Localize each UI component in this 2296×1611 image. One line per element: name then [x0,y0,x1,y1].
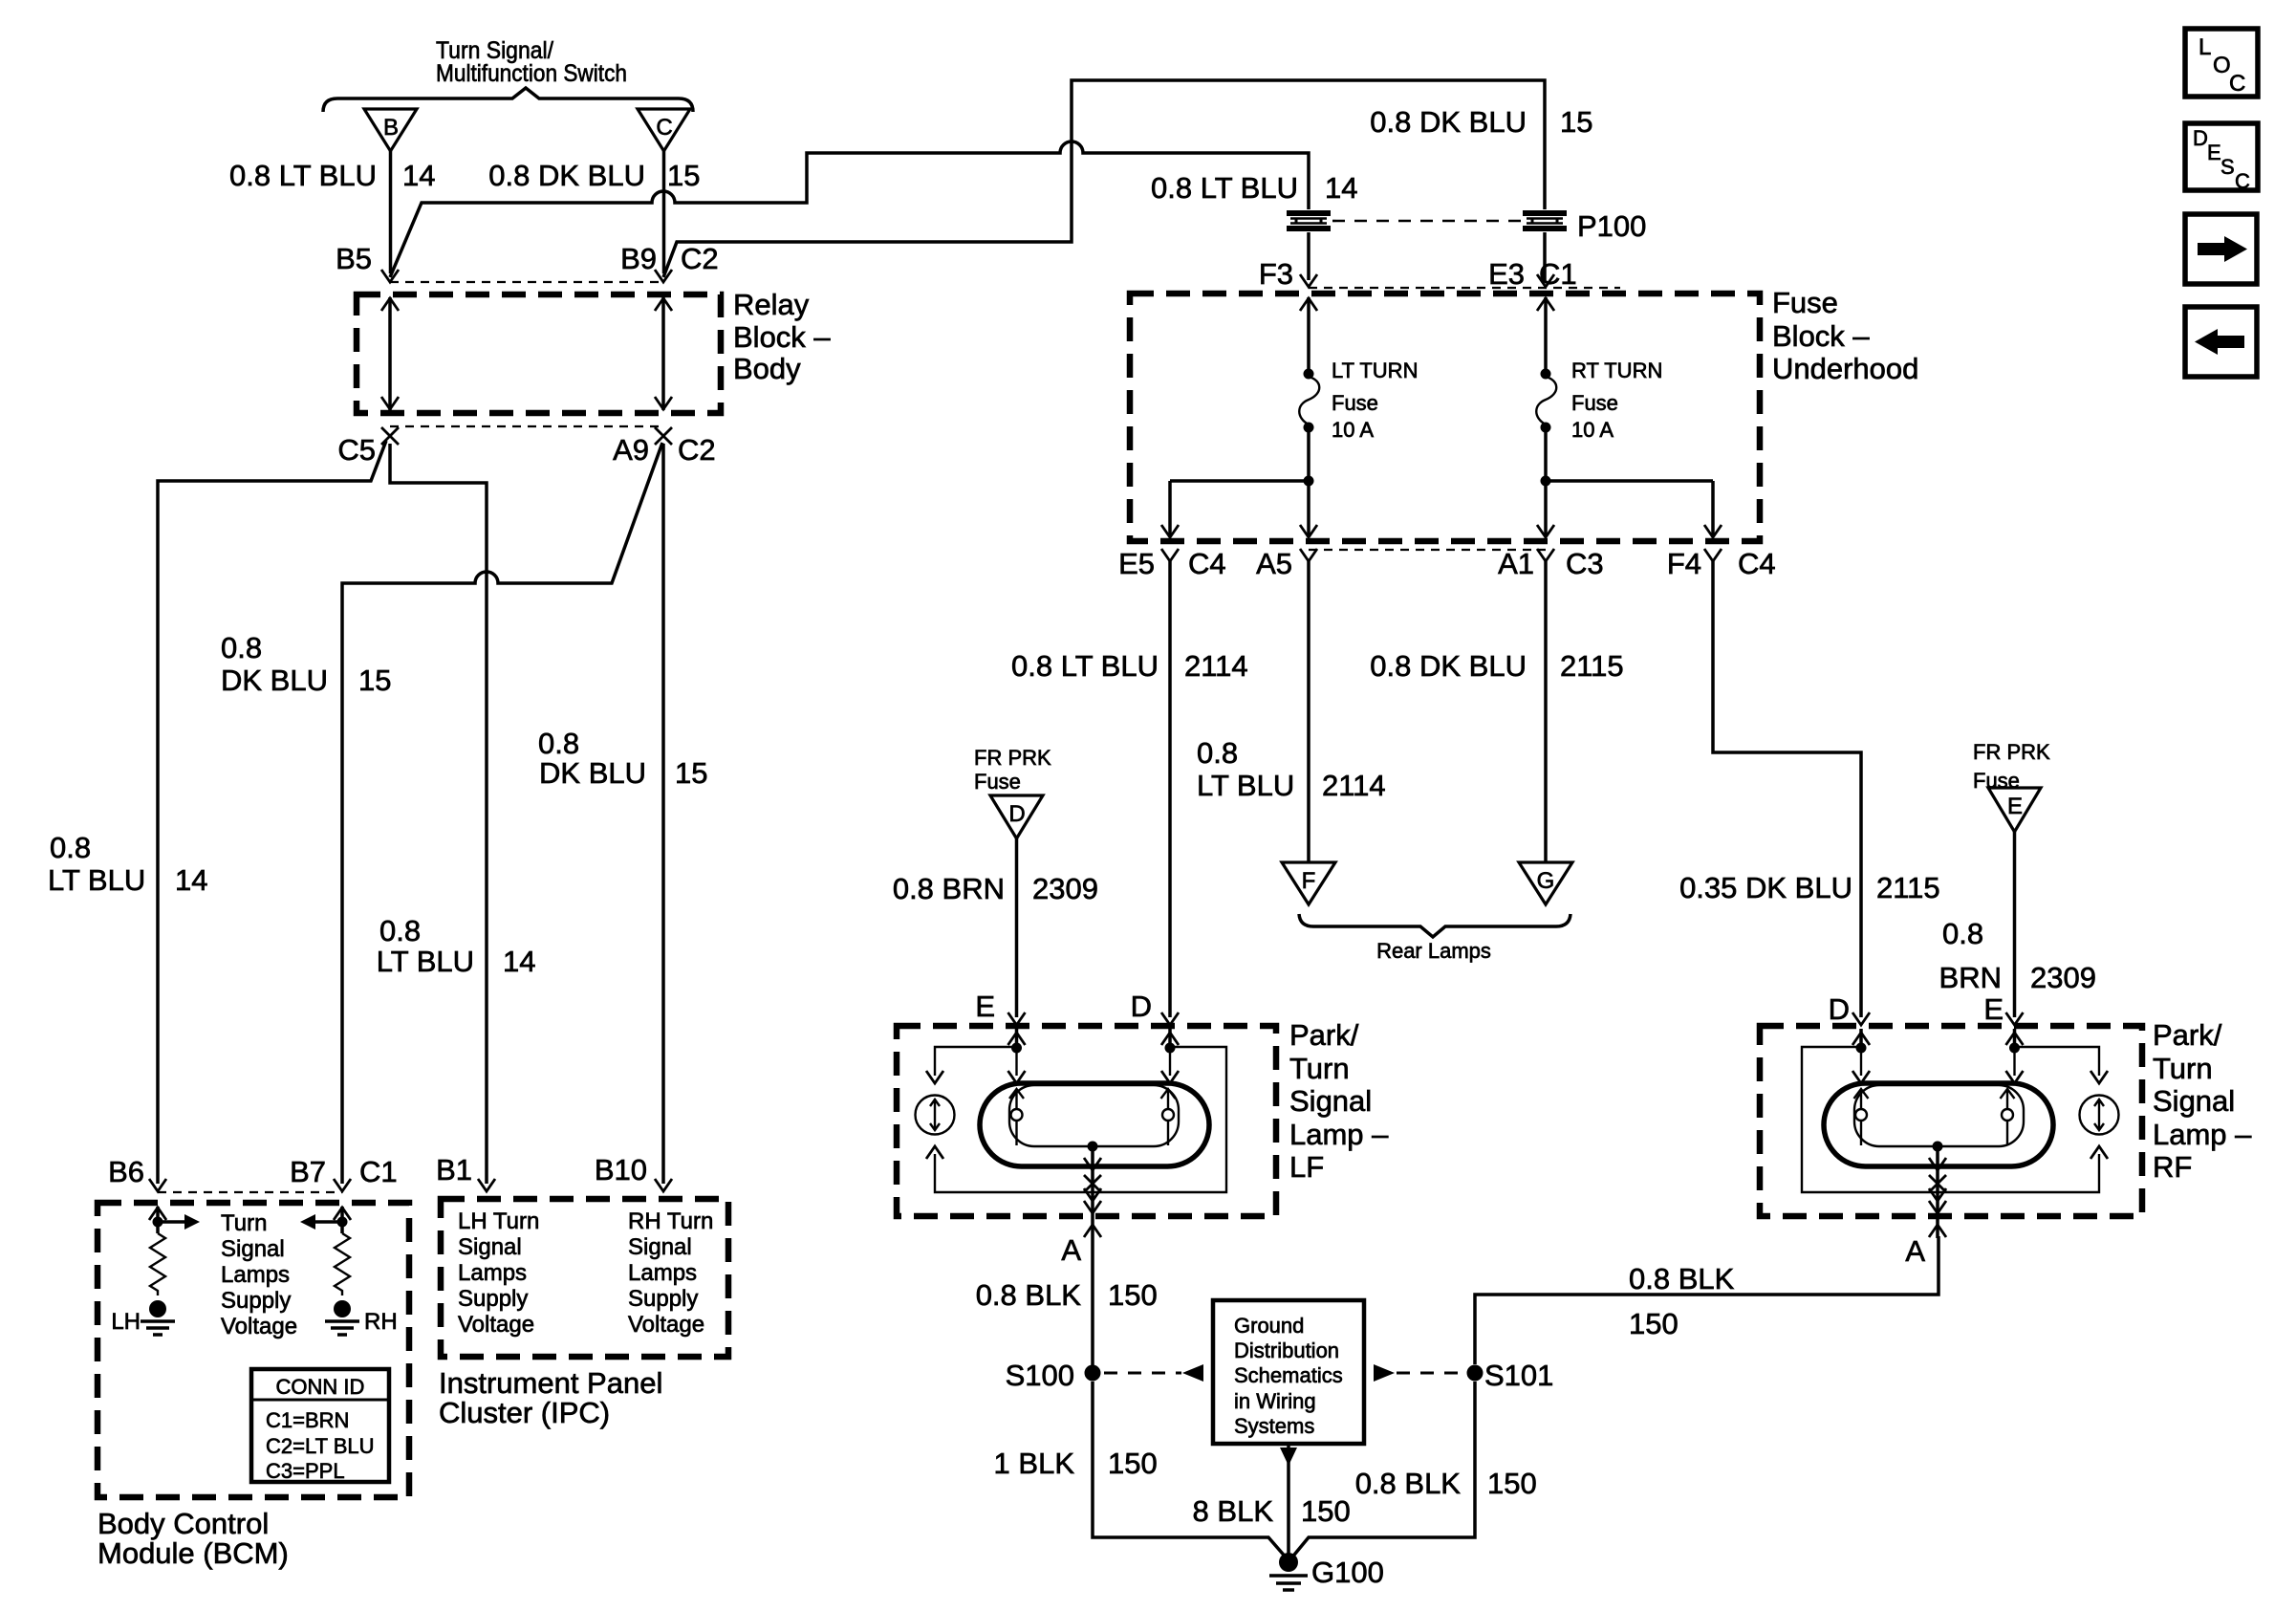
svg-text:C3=PPL: C3=PPL [266,1459,345,1483]
svg-text:Supply: Supply [221,1288,291,1314]
svg-text:C: C [656,115,672,141]
svg-text:Lamps: Lamps [628,1260,697,1286]
svg-text:Body Control: Body Control [97,1507,269,1540]
svg-text:14: 14 [503,945,535,978]
svg-text:FR PRK: FR PRK [1973,740,2050,764]
svg-text:0.8 LT BLU: 0.8 LT BLU [1151,171,1298,205]
svg-text:D: D [2193,126,2208,150]
svg-text:Supply: Supply [458,1286,528,1312]
svg-text:E: E [1983,992,2004,1026]
svg-text:D: D [1131,990,1152,1023]
svg-text:F4: F4 [1667,547,1701,580]
svg-text:C3: C3 [1566,547,1604,580]
svg-text:Signal: Signal [628,1234,692,1260]
svg-text:FR PRK: FR PRK [974,746,1051,770]
svg-text:Signal: Signal [458,1234,522,1260]
svg-text:0.8 DK BLU: 0.8 DK BLU [1370,105,1527,139]
svg-text:0.8 BLK: 0.8 BLK [1629,1262,1735,1295]
svg-text:LT BLU: LT BLU [377,945,474,978]
svg-text:B9: B9 [620,242,657,275]
svg-text:LT BLU: LT BLU [1197,769,1294,802]
svg-text:0.8 DK BLU: 0.8 DK BLU [1370,649,1527,683]
svg-text:A: A [1905,1234,1925,1268]
svg-text:0.8 BRN: 0.8 BRN [893,872,1005,905]
svg-text:Fuse: Fuse [1772,286,1838,319]
svg-text:Underhood: Underhood [1772,352,1918,385]
svg-text:Cluster (IPC): Cluster (IPC) [439,1396,610,1429]
svg-text:2309: 2309 [1032,872,1098,905]
svg-text:Relay: Relay [733,288,810,321]
svg-text:0.8 DK BLU: 0.8 DK BLU [488,159,645,192]
svg-text:C1: C1 [359,1155,398,1188]
svg-text:D: D [1829,992,1850,1026]
svg-text:150: 150 [1301,1494,1351,1528]
svg-text:Signal: Signal [221,1236,285,1262]
svg-text:0.8: 0.8 [50,831,91,864]
svg-text:D: D [1008,801,1025,827]
svg-text:Module (BCM): Module (BCM) [97,1536,289,1570]
svg-text:C4: C4 [1738,547,1776,580]
svg-text:Signal: Signal [1289,1084,1372,1118]
svg-text:Lamps: Lamps [221,1262,290,1288]
svg-text:C2: C2 [681,242,719,275]
svg-text:150: 150 [1108,1278,1158,1312]
svg-text:C5: C5 [337,433,376,467]
svg-text:B1: B1 [436,1153,472,1186]
svg-text:Voltage: Voltage [628,1312,704,1338]
svg-text:Instrument Panel: Instrument Panel [439,1366,662,1400]
svg-text:C2: C2 [678,433,716,467]
svg-text:A1: A1 [1498,547,1534,580]
svg-text:in Wiring: in Wiring [1234,1389,1316,1413]
svg-text:0.8: 0.8 [1197,736,1238,770]
svg-text:A5: A5 [1256,547,1292,580]
svg-text:Voltage: Voltage [458,1312,534,1338]
svg-text:RT TURN: RT TURN [1571,359,1662,382]
svg-text:0.8 BLK: 0.8 BLK [976,1278,1082,1312]
svg-text:S100: S100 [1006,1359,1074,1392]
svg-text:Schematics: Schematics [1234,1363,1343,1387]
svg-text:15: 15 [1560,105,1592,139]
svg-text:F3: F3 [1259,257,1293,291]
svg-text:Distribution: Distribution [1234,1339,1339,1362]
svg-text:Signal: Signal [2153,1084,2235,1118]
svg-text:15: 15 [675,756,707,790]
svg-text:Rear Lamps: Rear Lamps [1376,939,1491,963]
svg-text:C1: C1 [1539,257,1577,291]
svg-text:B: B [383,115,399,141]
svg-text:S101: S101 [1484,1359,1553,1392]
svg-text:Fuse: Fuse [1571,391,1618,415]
svg-text:LT BLU: LT BLU [48,863,145,897]
svg-text:LT TURN: LT TURN [1332,359,1418,382]
svg-text:DK BLU: DK BLU [221,664,328,697]
svg-text:L: L [2199,34,2211,60]
svg-text:C: C [2229,71,2245,97]
svg-text:0.35 DK BLU: 0.35 DK BLU [1679,871,1852,904]
svg-text:Fuse: Fuse [974,770,1021,794]
svg-text:F: F [1302,868,1316,894]
svg-text:0.8: 0.8 [379,914,421,947]
svg-text:Voltage: Voltage [221,1314,297,1339]
svg-text:150: 150 [1629,1307,1679,1340]
svg-text:Block –: Block – [733,320,831,354]
svg-text:Turn: Turn [2153,1052,2213,1085]
svg-text:2309: 2309 [2030,961,2096,994]
svg-text:A: A [1061,1233,1081,1267]
svg-text:E: E [2007,794,2023,819]
svg-text:E: E [975,990,995,1023]
svg-text:P100: P100 [1577,209,1646,243]
svg-text:CONN ID: CONN ID [276,1375,365,1399]
svg-text:LH: LH [111,1309,141,1335]
svg-text:15: 15 [667,159,700,192]
svg-text:RH Turn: RH Turn [628,1208,713,1234]
svg-text:B6: B6 [108,1155,144,1188]
svg-text:E3: E3 [1488,257,1525,291]
svg-text:0.8 LT BLU: 0.8 LT BLU [1011,649,1159,683]
svg-text:150: 150 [1108,1447,1158,1480]
svg-text:RF: RF [2153,1150,2192,1184]
svg-text:15: 15 [358,664,391,697]
svg-text:E5: E5 [1118,547,1155,580]
svg-text:E: E [2207,141,2221,164]
svg-text:8 BLK: 8 BLK [1193,1494,1274,1528]
svg-text:10 A: 10 A [1332,418,1374,442]
svg-text:Block –: Block – [1772,319,1870,353]
svg-text:Park/: Park/ [2153,1018,2222,1052]
svg-text:Supply: Supply [628,1286,698,1312]
svg-text:2114: 2114 [1184,649,1248,683]
svg-text:Lamps: Lamps [458,1260,527,1286]
svg-text:2115: 2115 [1876,871,1940,904]
svg-text:14: 14 [175,863,207,897]
svg-text:DK BLU: DK BLU [539,756,646,790]
svg-text:C: C [2235,169,2250,193]
svg-text:G100: G100 [1311,1556,1384,1589]
svg-text:14: 14 [402,159,435,192]
svg-text:LH Turn: LH Turn [458,1208,539,1234]
svg-text:Lamp –: Lamp – [2153,1118,2252,1151]
svg-text:0.8: 0.8 [1942,917,1983,950]
svg-text:14: 14 [1325,171,1357,205]
svg-text:Turn: Turn [1289,1052,1350,1085]
svg-text:Lamp –: Lamp – [1289,1118,1389,1151]
svg-text:150: 150 [1487,1467,1537,1500]
svg-text:Ground: Ground [1234,1314,1304,1338]
svg-text:10 A: 10 A [1571,418,1614,442]
svg-text:2114: 2114 [1322,769,1386,802]
svg-text:BRN: BRN [1939,961,2002,994]
svg-text:C2=LT BLU: C2=LT BLU [266,1434,375,1458]
svg-text:Turn: Turn [221,1210,267,1236]
svg-text:2115: 2115 [1560,649,1624,683]
svg-text:C1=BRN: C1=BRN [266,1408,349,1432]
svg-text:LF: LF [1289,1150,1324,1184]
svg-text:0.8: 0.8 [538,727,579,760]
svg-text:0.8 LT BLU: 0.8 LT BLU [229,159,377,192]
svg-text:B7: B7 [290,1155,326,1188]
svg-text:Multifunction Switch: Multifunction Switch [436,60,627,87]
svg-text:Park/: Park/ [1289,1018,1359,1052]
svg-text:B10: B10 [595,1153,647,1186]
svg-text:B5: B5 [336,242,372,275]
svg-text:C4: C4 [1188,547,1226,580]
svg-text:S: S [2220,155,2235,179]
svg-text:G: G [1537,868,1555,894]
svg-text:1 BLK: 1 BLK [994,1447,1075,1480]
svg-text:Body: Body [733,352,801,385]
svg-text:0.8: 0.8 [221,631,262,664]
svg-text:0.8 BLK: 0.8 BLK [1355,1467,1462,1500]
svg-text:Fuse: Fuse [1332,391,1378,415]
svg-text:O: O [2213,53,2231,78]
svg-text:Systems: Systems [1234,1414,1314,1438]
svg-text:RH: RH [364,1309,398,1335]
svg-text:A9: A9 [613,433,649,467]
